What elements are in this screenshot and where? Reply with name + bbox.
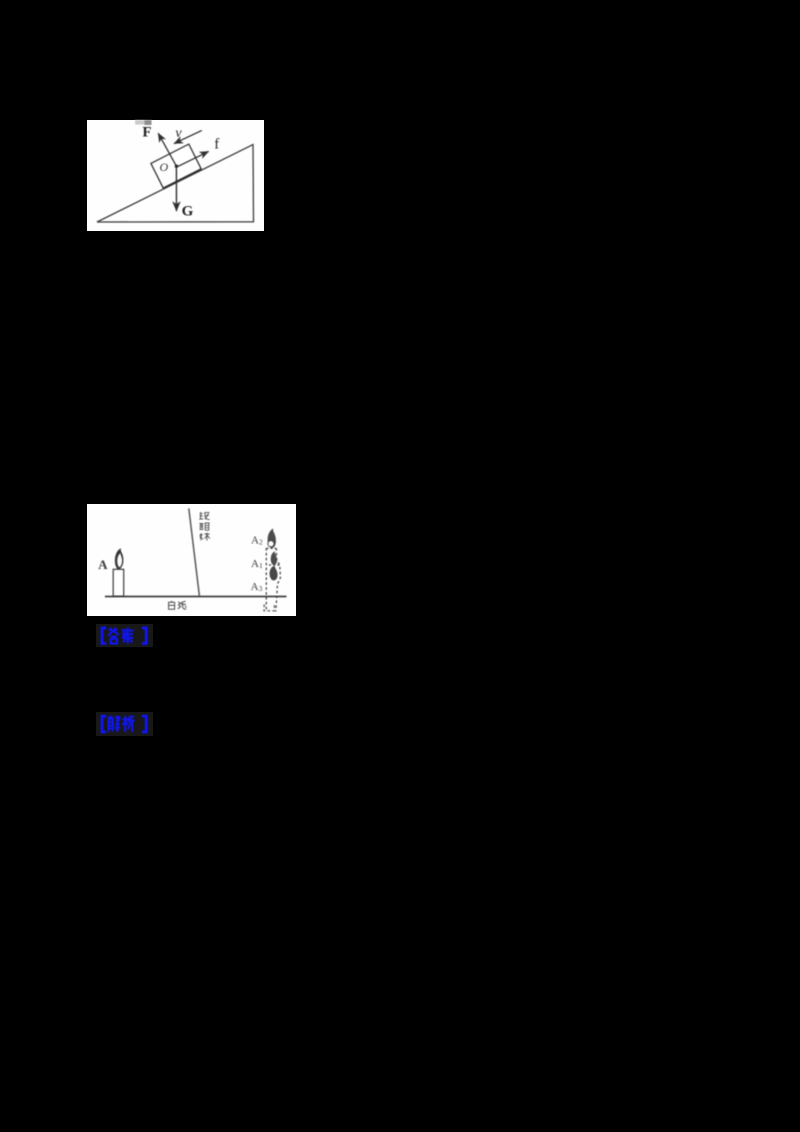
velocity arrow v [174,130,202,143]
image candle dashed outline right edge [276,548,281,612]
svg-text:A: A [251,535,259,547]
svg-text:f: f [214,137,219,153]
label A1 [251,558,263,570]
diagram 1: inclined-plane free-body figure (white panel) [87,120,264,231]
label 玻璃板 (vertical, drawn strokes) [199,512,210,541]
node O dot [175,165,178,168]
analysis label 【解析】 (blue drawn glyphs) [96,712,153,736]
svg-text:F: F [142,125,151,141]
svg-text:G: G [182,204,194,220]
analysis label background [96,712,153,736]
image flame top (A2) [268,528,276,548]
image candle dashed outline left edge [265,548,267,612]
svg-text:O: O [159,160,168,174]
image flame middle (A1) [271,551,277,565]
label 白纸 (drawn strokes) [169,601,187,609]
svg-text:2: 2 [259,537,263,546]
friction arrow f [177,151,209,166]
gravity arrow G [175,166,177,211]
svg-text:A: A [98,557,108,572]
label A2 [251,535,263,547]
answer label 【答案】 (blue drawn glyphs) [96,624,153,647]
scan smudge artifact [135,120,152,125]
svg-text:1: 1 [259,561,263,570]
candle A body [113,569,124,596]
image flame lower blob (A3) [270,566,278,581]
block on incline [151,144,201,188]
force arrow F [158,133,176,166]
diagram 2: candle and glass-plate optics figure (white panel) [87,504,296,616]
glass plate [189,508,200,596]
svg-text:3: 3 [259,584,263,593]
image candle dashed top edge [266,547,276,549]
incline triangle [97,145,254,223]
block bottom contact edge [163,169,201,188]
svg-text:A: A [251,581,259,593]
table line (white paper) [105,596,287,598]
image candle dashed bottom hook [264,605,274,611]
label A3 [251,581,263,593]
svg-text:A: A [251,558,259,570]
answer label background [96,624,153,647]
image candle dashed mid edge [269,564,280,566]
candle A flame [115,548,124,570]
svg-text:v: v [175,126,182,141]
